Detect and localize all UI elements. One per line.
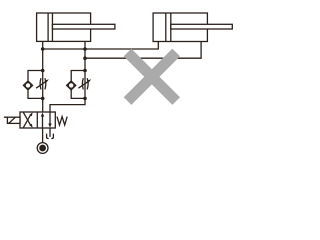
flow control valve 2 check seat diamond: [67, 81, 76, 90]
source inner dot: [39, 145, 46, 152]
directional valve right box straight arrow up: [42, 116, 44, 128]
wire main line left: cylinder 1 cap port down to valve port: [42, 41, 44, 112]
cylinder 1 rod: [52, 24, 114, 29]
directional valve divider: [36, 112, 38, 128]
cylinder 1 (top left) body: [37, 13, 91, 41]
flow control valve 1 check seat diamond: [23, 81, 32, 90]
flow control valve 1 adjust arrow: [36, 81, 46, 88]
directional valve body: [20, 112, 55, 128]
flow control valve 1 check ball: [25, 83, 31, 89]
cross-out X mark: [124, 49, 180, 105]
flow control valve 1 throttle arcs: [40, 78, 46, 89]
cylinder 2 (top right) body: [153, 13, 207, 42]
exhaust stub: [49, 128, 51, 137]
cylinder 2 rod: [171, 24, 233, 29]
wire valve to source circle: [42, 128, 44, 143]
flow control valve 1 bypass loop: [28, 71, 43, 99]
directional valve left box crossed arrow 2: [23, 112, 30, 125]
flow control valve 2 throttle arcs: [82, 78, 88, 89]
source outer circle: [37, 143, 48, 154]
wire H2 rod-end line with riser to cylinder 2: [85, 42, 201, 59]
flow control valve 2 check ball: [68, 83, 74, 89]
directional valve spring: [57, 117, 67, 125]
solenoid coil: [7, 117, 20, 123]
wire H1 cap-end line with riser to cylinder 2: [43, 42, 159, 50]
cylinder 1 piston: [48, 13, 52, 41]
cylinder 2 piston: [166, 13, 171, 42]
flow control valve 2 bypass loop: [71, 71, 85, 99]
flow control valve 2 adjust arrow: [78, 81, 88, 88]
exhaust bracket hooks: [47, 134, 54, 139]
wire main line right: cylinder 1 rod port down through flow valve 2 and Z to valve port: [50, 41, 85, 112]
directional valve right box straight arrow down: [49, 112, 51, 124]
directional valve left box crossed arrow 1: [23, 115, 30, 128]
node junction dots: [41, 47, 87, 100]
